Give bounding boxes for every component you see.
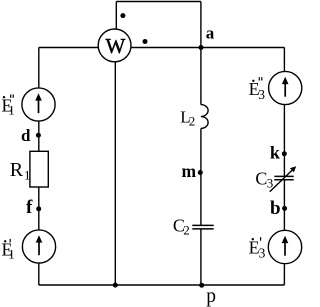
svg-text:C: C — [255, 168, 267, 188]
wire middle branch lower — [200, 229, 202, 285]
svg-text:W: W — [105, 34, 125, 58]
node f — [36, 206, 41, 211]
polarity dot (voltage coil) — [120, 13, 125, 18]
svg-text:1: 1 — [24, 167, 31, 182]
svg-text:1: 1 — [8, 247, 15, 262]
svg-text:1: 1 — [8, 103, 15, 118]
wire right branch upper — [283, 48, 285, 177]
wire middle branch upper — [200, 2, 202, 105]
wire bottom rail — [39, 284, 285, 286]
svg-text:2: 2 — [183, 222, 190, 237]
wire wattmeter bottom — [114, 62, 116, 286]
polarity dot (current coil) — [143, 39, 148, 44]
svg-text:b: b — [270, 198, 281, 219]
label E1' — [2, 239, 15, 262]
wire top rail — [39, 47, 285, 49]
svg-text:m: m — [182, 161, 197, 181]
svg-text:a: a — [206, 24, 215, 43]
capacitor C2 — [192, 224, 213, 226]
wire right branch lower — [283, 180, 285, 285]
source E1' (EMF source, arrow up) — [22, 230, 55, 263]
label E3'' — [249, 77, 266, 102]
node a — [199, 45, 204, 50]
svg-text:3: 3 — [258, 87, 265, 102]
node m — [198, 170, 203, 175]
wattmeter W — [98, 29, 131, 62]
inductor L2 — [201, 105, 208, 129]
svg-text:2: 2 — [189, 113, 196, 128]
svg-text:d: d — [21, 126, 31, 145]
label E1'' — [2, 94, 15, 117]
svg-text:R: R — [10, 159, 24, 181]
capacitor C3 (variable, diagonal arrow) — [274, 175, 293, 177]
svg-text:f: f — [26, 197, 33, 218]
source E3' (EMF source, arrow up) — [268, 230, 301, 263]
svg-text:k: k — [270, 143, 280, 163]
node k — [282, 151, 287, 156]
junction wattmeter bottom on rail — [113, 283, 118, 288]
wire left branch — [38, 48, 40, 286]
source E1'' (EMF source, arrow up) — [22, 88, 55, 121]
svg-text:3: 3 — [267, 176, 274, 191]
node p — [199, 283, 204, 288]
label E3' — [249, 237, 266, 260]
wire middle branch mid — [200, 129, 202, 226]
wire wattmeter voltage top — [115, 2, 117, 30]
label L2 — [180, 108, 195, 129]
node b — [282, 206, 287, 211]
node d — [36, 133, 41, 138]
source E3'' (EMF source, arrow up) — [269, 71, 302, 104]
svg-text:p: p — [206, 286, 216, 307]
label C3 — [255, 168, 273, 190]
svg-text:3: 3 — [259, 245, 266, 260]
resistor R1 — [30, 151, 48, 187]
label C2 — [173, 216, 190, 238]
label R1 — [10, 159, 31, 183]
